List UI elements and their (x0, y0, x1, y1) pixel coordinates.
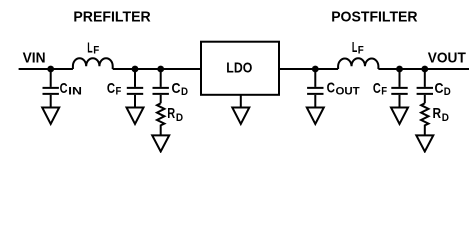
LDO box U1 (201, 42, 279, 95)
ground under COUT (307, 108, 324, 125)
label CF right (373, 80, 387, 98)
label LF prefilter (87, 39, 99, 56)
svg-text:R: R (433, 105, 442, 122)
node junction CD right (421, 66, 428, 73)
svg-text:C: C (327, 80, 336, 97)
wire VIN input rail (19, 68, 73, 70)
inductor LF prefilter (73, 58, 113, 69)
capacitor CIN (43, 69, 59, 108)
node junction CD left (157, 66, 164, 73)
svg-text:F: F (381, 86, 387, 98)
ground under RD left (152, 135, 169, 151)
wire LDO output (279, 68, 338, 70)
node junction COUT (312, 66, 319, 73)
svg-text:R: R (167, 105, 175, 122)
svg-text:OUT: OUT (336, 86, 360, 98)
svg-text:D: D (176, 112, 183, 124)
svg-text:D: D (442, 112, 449, 124)
wire to VOUT (378, 68, 469, 70)
ground under CIN (42, 108, 59, 125)
wire inductor to LDO (113, 68, 201, 70)
label COUT (327, 80, 360, 98)
resistor RD left (157, 103, 164, 135)
svg-text:F: F (358, 44, 364, 56)
node junction CIN (47, 66, 54, 73)
label LF postfilter (352, 39, 364, 56)
svg-text:L: L (352, 39, 357, 56)
label CD left (172, 80, 189, 98)
ground under CF left (127, 108, 144, 125)
svg-text:C: C (107, 80, 115, 97)
svg-text:VOUT: VOUT (428, 50, 466, 67)
svg-text:POSTFILTER: POSTFILTER (331, 9, 418, 26)
label CD right (435, 80, 451, 98)
capacitor CD right (417, 69, 433, 103)
capacitor CF left (127, 69, 143, 108)
svg-text:LDO: LDO (226, 59, 252, 76)
capacitor CD left (153, 69, 169, 103)
svg-text:C: C (435, 80, 444, 97)
svg-text:C: C (172, 80, 181, 97)
svg-text:C: C (60, 80, 68, 97)
inductor LF postfilter (338, 58, 378, 69)
svg-text:IN: IN (68, 86, 82, 98)
svg-text:L: L (87, 39, 92, 56)
capacitor COUT (307, 69, 323, 108)
svg-text:D: D (181, 86, 188, 98)
resistor RD right (421, 103, 428, 135)
svg-text:PREFILTER: PREFILTER (73, 9, 150, 26)
ground under CF right (391, 108, 408, 125)
svg-text:D: D (444, 86, 451, 98)
label CIN (60, 80, 82, 97)
ground under RD right (416, 135, 433, 151)
node junction CF left (132, 66, 139, 73)
node junction CF right (396, 66, 403, 73)
ground under LDO (232, 95, 249, 124)
label RD left (167, 105, 183, 124)
svg-text:VIN: VIN (23, 50, 46, 67)
svg-text:F: F (116, 86, 122, 98)
label RD right (433, 105, 450, 124)
label CF left (107, 80, 122, 98)
svg-text:C: C (373, 80, 381, 97)
capacitor CF right (391, 69, 407, 108)
svg-text:F: F (93, 45, 99, 57)
